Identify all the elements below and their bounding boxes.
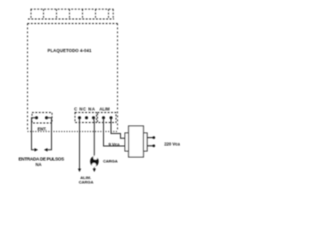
svg-text:CARGA: CARGA <box>103 159 118 164</box>
svg-text:ALIM: ALIM <box>99 107 110 112</box>
svg-text:PLAQUETODO 4-041: PLAQUETODO 4-041 <box>47 48 92 53</box>
svg-text:ENTRADA DE PULSOS: ENTRADA DE PULSOS <box>19 156 65 161</box>
svg-text:220 Vca: 220 Vca <box>164 142 180 147</box>
svg-text:ENT.: ENT. <box>37 127 46 132</box>
svg-text:NA: NA <box>35 162 41 167</box>
svg-text:9 Vca: 9 Vca <box>109 142 121 147</box>
svg-text:C NC NA: C NC NA <box>74 107 95 112</box>
svg-text:CARGA: CARGA <box>79 180 94 185</box>
